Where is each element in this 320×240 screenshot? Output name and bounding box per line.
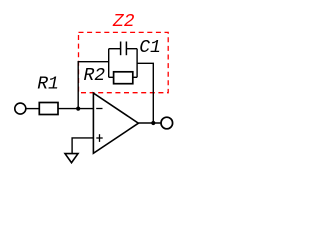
wire output tap from Z2 down to output node [137,63,153,123]
terminal output [161,117,173,129]
wire left riser of parallel network [108,49,110,78]
wire R2 right lead [133,76,137,78]
wire R2 left lead [109,76,114,78]
svg-text:R2: R2 [84,66,106,86]
svg-text:R1: R1 [37,74,59,94]
wire C1 right lead [126,48,137,50]
wire non-inverting input to ground [72,138,93,153]
terminal input [15,103,26,114]
node B junction dot output [151,121,155,125]
minus sign inverting input [96,108,102,110]
capacitor C1 [121,42,127,56]
wire R1 to op-amp inverting input [58,108,93,110]
ground [65,154,78,163]
node A junction dot [76,107,80,111]
impedance block Z2 dashed boundary [79,32,169,92]
svg-text:Z2: Z2 [112,12,135,32]
op-amp U1 [93,93,138,153]
wire feedback riser [78,62,109,109]
svg-text:C1: C1 [139,38,161,58]
resistor R1 [39,103,58,115]
wire C1 left lead [109,48,121,50]
resistor R2 [114,72,133,84]
plus sign non-inverting input [96,134,102,142]
wire op-amp output [138,122,161,124]
wire input to R1 [26,108,39,110]
wire right riser of parallel network [136,49,138,78]
